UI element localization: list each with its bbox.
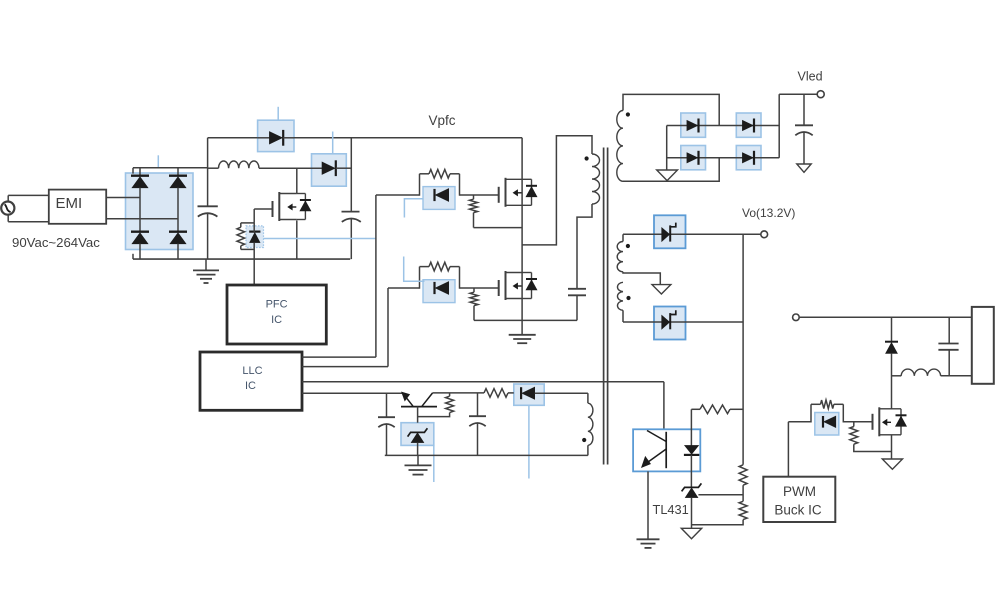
ground marker M1 (open triangle) <box>657 170 678 181</box>
aux rail wire (Q4 collector) <box>433 392 484 394</box>
LLC upper MOSFET Q2 <box>498 194 500 196</box>
Vled rectifier row2 wire <box>667 157 780 159</box>
svg-text:PWM: PWM <box>783 484 816 499</box>
T1 aux winding <box>587 393 589 403</box>
blue elbow upper gate <box>404 199 422 218</box>
bridge diode DB4 (bottom-right) <box>169 231 187 233</box>
wire EMI to bridge AC1 <box>106 197 140 199</box>
svg-text:Vled: Vled <box>798 69 823 83</box>
zener D6 <box>411 433 424 443</box>
wire bridge right column <box>177 188 179 233</box>
buck gate pulldown R13 <box>853 422 855 427</box>
blue tick above bridge <box>157 155 159 168</box>
aux diode D7 <box>522 387 535 399</box>
svg-text:Buck IC: Buck IC <box>774 502 822 517</box>
opto emitter wire <box>647 471 649 538</box>
load block <box>972 307 994 384</box>
wire mid-node to primary <box>522 136 592 245</box>
Vcc capacitor C4 <box>386 393 388 417</box>
PFC gate diode D3 dotted box <box>246 226 264 248</box>
divider resistor R10 <box>739 501 747 519</box>
Vled filter capacitor C6 <box>803 94 805 125</box>
wire AC source to EMI bottom <box>8 221 49 223</box>
Vled diode D8 <box>687 120 698 130</box>
buck inductor L2 <box>892 375 902 377</box>
resonant capacitor C3 <box>576 296 578 321</box>
svg-text:EMI: EMI <box>55 195 82 212</box>
boost inductor L1 <box>219 161 259 168</box>
Q4 base lead <box>417 407 419 423</box>
svg-text:Vo(13.2V): Vo(13.2V) <box>742 206 795 220</box>
wire D1 to Vpfc rail <box>294 137 522 139</box>
bypass diode D1 box <box>258 120 294 151</box>
ground marker M2 (open triangle) <box>797 164 811 172</box>
zener D6 box <box>401 423 434 446</box>
svg-text:Vpfc: Vpfc <box>429 113 456 128</box>
ground marker M4 (open triangle) <box>681 528 701 539</box>
buck MOSFET Q5 <box>843 421 872 423</box>
aux series resistor R8 <box>484 389 508 398</box>
ground G2 half-bridge <box>509 334 536 336</box>
optocoupler U3 box <box>633 429 700 471</box>
buck input terminal <box>793 314 800 321</box>
blue leader below D6 <box>433 445 435 482</box>
Vled output wire <box>778 94 780 158</box>
buck input rail wire <box>799 316 972 318</box>
wire lower gate to Q3 <box>460 287 499 289</box>
LLC lower MOSFET Q3 <box>498 287 500 289</box>
svg-text:IC: IC <box>245 380 256 392</box>
wire S1 top to rectifier <box>623 94 719 125</box>
feedback resistor R11 <box>691 408 700 410</box>
blue leader below D7 <box>528 405 530 478</box>
buck output capacitor C7 <box>948 317 950 343</box>
wire PFC output node <box>350 138 352 212</box>
Vled diode D11 box <box>736 146 761 170</box>
wire bridge top <box>133 167 208 169</box>
Vled diode D9 <box>742 120 753 130</box>
PFC gate diode D3 <box>249 231 260 233</box>
resonant rail wire <box>474 319 577 321</box>
blue elbow lower gate <box>404 257 425 282</box>
divider resistor R9 <box>739 465 747 485</box>
wire bridge bottom rail <box>133 258 350 260</box>
blue tick above D1 <box>277 107 279 120</box>
wire S1 bottom to rectifier <box>623 158 719 182</box>
sync rectifier D13 <box>662 315 670 329</box>
T1 primary polarity dot <box>585 156 589 160</box>
wire LLC pin3 feedback to optocoupler <box>302 381 664 383</box>
T1 secondary S2b winding <box>617 282 623 310</box>
AC source V1 <box>1 202 14 215</box>
sync rectifier D12 <box>662 228 670 242</box>
ground marker M5 (open triangle) <box>882 459 902 469</box>
TL431 U5 <box>685 488 698 498</box>
sync rectifier D13 box <box>654 307 686 340</box>
ground marker M3 (open triangle) <box>652 285 671 294</box>
svg-text:PFC: PFC <box>266 299 288 311</box>
TL431 ref wire <box>698 494 743 496</box>
buck gate network R12/D15 <box>810 404 812 422</box>
upper gate network R3/D4 <box>419 174 421 196</box>
bridge diode DB2 (top-right) <box>177 168 179 176</box>
sync rectifier D12 box <box>654 215 686 248</box>
svg-text:90Vac~264Vac: 90Vac~264Vac <box>12 235 100 250</box>
Vo row wire <box>623 233 761 235</box>
Vled diode D10 box <box>681 146 706 170</box>
blue tick above D2 <box>332 132 334 154</box>
svg-text:LLC: LLC <box>242 365 262 377</box>
upper gate pulldown R4 <box>470 199 478 212</box>
optocoupler phototransistor <box>665 432 667 468</box>
terminal Vo <box>761 231 768 238</box>
svg-text:IC: IC <box>271 314 282 326</box>
bridge diode DB1 (top-left) <box>139 168 141 176</box>
aux capacitor C5 <box>477 393 479 416</box>
T1 S2b polarity dot <box>626 296 630 300</box>
T1 S1 polarity dot <box>626 112 630 116</box>
optocoupler LED <box>690 409 692 445</box>
ground G3 aux <box>417 455 419 465</box>
wire LLC pin4 Vcc <box>302 392 403 394</box>
buck gate diode D15 box <box>815 413 839 436</box>
half-bridge leg wire <box>521 138 523 334</box>
Vled diode D8 box <box>681 113 706 137</box>
wire LLC pin2 to lower gate <box>302 366 388 368</box>
T1 secondary S1 winding <box>617 111 623 182</box>
Vled diode D9 box <box>736 113 761 137</box>
PFC MOSFET Q1 <box>296 168 298 193</box>
wire EMI to bridge AC2 / middle rail <box>106 218 178 220</box>
lower gate diode D5 box <box>423 280 455 303</box>
bypass diode D1 <box>258 137 270 139</box>
T1 primary winding <box>592 154 600 204</box>
aux return rail wire <box>587 445 589 455</box>
node Vpfc top rail with bypass diode D1 <box>207 138 209 168</box>
wire upper gate to Q2 <box>460 194 499 196</box>
Vled diode D10 <box>687 153 698 163</box>
bridge rectifier box <box>126 173 194 250</box>
wire S2a top to Vo row <box>622 234 624 241</box>
Vled rectifier left join wire <box>666 126 668 171</box>
LLC IC box <box>200 352 302 410</box>
wire bridge-top junction to inductor <box>208 167 219 169</box>
bulk capacitor C1 <box>207 168 209 207</box>
upper gate diode D4 box <box>423 187 455 210</box>
aux transistor Q4 <box>402 392 410 401</box>
transformer T1 core <box>603 148 605 465</box>
boost diode D2 box <box>312 154 347 186</box>
wire bridge left column <box>139 188 141 233</box>
Vled rectifier row1 wire <box>667 125 780 127</box>
wire primary bottom to C3 <box>577 204 592 244</box>
Vo sense bus wire <box>742 234 744 464</box>
ground G4 opto <box>637 538 660 540</box>
bridge diode DB3 (bottom-left) <box>131 231 149 233</box>
wire LLC pin1 to upper gate <box>302 356 376 358</box>
terminal Vled <box>817 91 824 98</box>
T1 S2a polarity dot <box>626 244 630 248</box>
PWM Buck IC box <box>763 477 835 522</box>
ground G1 under bridge <box>205 259 207 270</box>
PFC gate network resistor R2 <box>253 209 255 223</box>
wire AC source to EMI top <box>8 194 49 196</box>
T1 aux polarity dot <box>582 438 586 442</box>
wire gate network to PWM IC <box>788 421 811 423</box>
PFC output capacitor C2 <box>342 211 360 213</box>
Vled diode D11 <box>742 153 753 163</box>
blue wire from D3 to LLC gate rail <box>264 238 376 240</box>
EMI filter box <box>49 190 106 224</box>
lower gate pulldown R6 <box>470 292 478 305</box>
wire inductor to boost diode D2 <box>259 167 322 169</box>
aux diode D7 box <box>514 384 544 405</box>
PFC IC box <box>227 285 326 344</box>
T1 secondary S2a winding <box>617 242 623 272</box>
bias resistor R7 <box>446 396 454 412</box>
boost diode D2 <box>322 162 335 174</box>
wire S2b bottom row <box>622 310 624 322</box>
freewheel diode D14 <box>891 317 893 341</box>
lower gate network R5/D5 <box>419 267 421 289</box>
svg-text:TL431: TL431 <box>653 502 689 517</box>
center tap wire <box>623 272 660 285</box>
